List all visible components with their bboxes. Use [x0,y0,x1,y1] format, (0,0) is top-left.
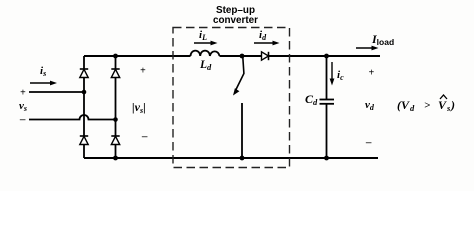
diode D3 (bottom-left of bridge) [80,136,88,145]
wire: bottom rail [84,157,378,159]
inductor Ld [191,51,220,56]
svg-text:|vs|: |vs| [132,100,146,115]
svg-text:>: > [424,100,430,112]
diode D2 (top-right of bridge) [111,69,119,78]
svg-text:–: – [365,137,372,149]
node: switch top junction [240,54,245,59]
svg-text:–: – [19,114,26,126]
current Iload arrow [356,46,379,51]
wire: capacitor top lead [326,56,328,100]
wire: right bridge leg [115,56,117,158]
node: right leg / top rail junction [113,54,118,59]
current ic arrow [330,62,335,86]
wire: vs positive lead [29,91,84,93]
dashed enclosure: step-up converter [173,28,290,168]
node: switch bottom junction [240,156,245,161]
svg-text:converter: converter [213,15,258,26]
wire: top rail [84,55,380,57]
current is arrow [30,81,57,86]
svg-text:–: – [141,131,148,143]
node: vs+ junction on left leg [82,90,87,95]
svg-text:+: + [369,68,375,79]
node: right leg / bottom rail junction [113,156,118,161]
svg-text:V: V [438,98,447,112]
node: capacitor top junction [324,54,329,59]
capacitor Cd [320,100,335,104]
diode D5 (boost series diode) [262,52,269,60]
node: vs- junction on right leg [113,117,118,122]
diode D1 (top-left of bridge) [80,69,88,78]
label (Vd > Vs peak) [397,95,455,113]
diode D4 (bottom-right of bridge) [111,136,119,145]
wire: left bridge leg [83,56,85,158]
current id arrow [254,41,280,46]
svg-text:): ) [450,98,455,112]
wire: switch bottom terminal [241,103,243,158]
wire: vs negative lead with crossover hump over left bridge leg [29,115,116,120]
node: capacitor bottom junction [324,156,329,161]
switch S (controllable, arrow blade) [233,57,244,96]
svg-text:+: + [20,88,26,99]
current iL arrow [194,41,218,46]
wire: capacitor bottom lead [326,104,328,158]
svg-text:+: + [140,66,146,77]
svg-text:V: V [401,98,410,112]
